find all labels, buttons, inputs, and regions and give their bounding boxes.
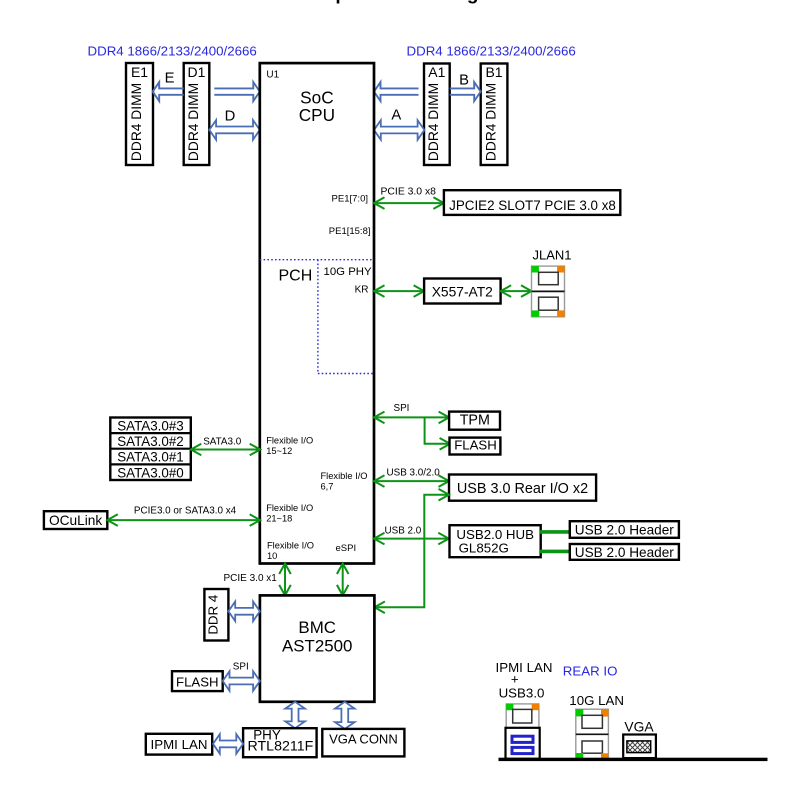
- svg-text:USB 3.0/2.0: USB 3.0/2.0: [387, 468, 441, 479]
- svg-text:GL852G: GL852G: [459, 540, 509, 555]
- memory channel E arrow (D1 to E1): [153, 82, 184, 101]
- svg-text:USB 2.0 Header: USB 2.0 Header: [575, 545, 674, 560]
- SATA3.0 bus arrow: [191, 444, 260, 456]
- SPI bus arrow CPU to TPM: [374, 412, 449, 424]
- PCH dotted region boundary: [260, 260, 374, 374]
- OCuLink bus arrow: [107, 514, 260, 526]
- BMC AST2500: [260, 595, 375, 701]
- svg-text:U1: U1: [266, 70, 279, 81]
- svg-text:USB 2.0 Header: USB 2.0 Header: [575, 522, 674, 537]
- JPCIE2 slot box: [444, 190, 620, 215]
- PHY RTL8211F box: [243, 728, 317, 757]
- hollow arrow BMC to PHY: [285, 702, 305, 728]
- svg-text:BMC: BMC: [298, 618, 336, 637]
- USB 3.0/2.0 bus arrow: [374, 475, 449, 487]
- svg-text:15~12: 15~12: [266, 446, 292, 456]
- DDR 4 box (BMC memory): [204, 589, 228, 641]
- FLASH box (BIOS): [450, 438, 501, 455]
- svg-text:AST2500: AST2500: [282, 637, 352, 656]
- svg-text:JLAN1: JLAN1: [532, 248, 571, 263]
- DIMM slot A1: [424, 64, 450, 166]
- svg-text:PCIE 3.0 x1: PCIE 3.0 x1: [224, 573, 278, 584]
- SoC CPU U1: [260, 63, 374, 563]
- svg-text:PE1[7:0]: PE1[7:0]: [332, 194, 368, 205]
- svg-text:10G LAN: 10G LAN: [569, 693, 624, 708]
- OCuLink box: [44, 511, 107, 529]
- svg-text:SATA3.0#0: SATA3.0#0: [117, 465, 184, 480]
- wire HUB to USB header 1: [540, 530, 570, 534]
- svg-text:21~18: 21~18: [266, 514, 292, 524]
- USB 2.0 Header box 1: [570, 521, 679, 538]
- svg-text:Flexible I/O: Flexible I/O: [266, 436, 313, 446]
- svg-text:6,7: 6,7: [321, 482, 334, 492]
- svg-text:PE1[15:8]: PE1[15:8]: [329, 226, 371, 237]
- svg-text:SPI: SPI: [394, 403, 410, 414]
- svg-text:X557-AT2: X557-AT2: [432, 284, 493, 299]
- PCIe 3.0 x1 arrow CPU to BMC: [279, 564, 291, 596]
- svg-text:10G PHY: 10G PHY: [324, 266, 373, 278]
- svg-text:DDR4 1866/2133/2400/2666: DDR4 1866/2133/2400/2666: [88, 44, 257, 59]
- USB 2.0 bus arrow: [374, 533, 449, 545]
- svg-text:PCIE 3.0 x8: PCIE 3.0 x8: [381, 186, 437, 197]
- svg-text:JPCIE2 SLOT7 PCIE 3.0 x8: JPCIE2 SLOT7 PCIE 3.0 x8: [449, 198, 616, 213]
- TPM box: [449, 412, 500, 430]
- memory bus arrow A1 to CPU: [374, 82, 419, 101]
- memory bus arrow D1 to CPU: [214, 82, 259, 101]
- VGA CONN box: [322, 729, 404, 757]
- hollow arrow BMC to VGA CONN: [335, 702, 355, 729]
- svg-text:PCIE3.0 or SATA3.0 x4: PCIE3.0 or SATA3.0 x4: [134, 505, 237, 516]
- wire HUB to USB header 2: [540, 550, 570, 554]
- connector 10G LAN (dual RJ45): [576, 709, 609, 759]
- svg-text:PCH: PCH: [279, 268, 313, 285]
- PCIe 3.0 x8 bus arrow: [374, 197, 444, 209]
- USB 3.0 Rear I/O x2 box: [449, 475, 596, 501]
- svg-text:B1: B1: [485, 64, 502, 80]
- svg-text:KR: KR: [355, 284, 369, 295]
- connector IPMI LAN RJ45 + USB3.0 stack: [506, 704, 540, 759]
- svg-text:A: A: [391, 108, 401, 124]
- svg-text:SATA3.0#1: SATA3.0#1: [117, 450, 184, 465]
- svg-text:A1: A1: [428, 64, 445, 80]
- svg-text:SATA3.0#2: SATA3.0#2: [117, 434, 184, 449]
- DIMM slot B1: [481, 64, 508, 166]
- svg-text:Flexible I/O: Flexible I/O: [266, 503, 313, 513]
- USB 2.0 Header box 2: [570, 544, 679, 560]
- svg-text:FLASH: FLASH: [454, 437, 497, 452]
- svg-text:USB 2.0: USB 2.0: [385, 525, 422, 536]
- svg-text:TPM: TPM: [460, 413, 490, 429]
- svg-text:B: B: [459, 72, 469, 88]
- svg-text:eSPI: eSPI: [336, 543, 357, 554]
- svg-text:+: +: [511, 672, 519, 687]
- hollow arrow DDR4 to BMC: [228, 602, 260, 622]
- SATA ports stack: [110, 418, 191, 481]
- memory channel D arrow (CPU/D1): [209, 120, 259, 140]
- svg-text:IPMI LAN: IPMI LAN: [496, 660, 553, 675]
- svg-text:DDR 4: DDR 4: [206, 595, 221, 635]
- eSPI arrow CPU to BMC: [337, 564, 349, 596]
- memory channel A arrow (CPU/A1): [374, 120, 424, 140]
- KR bus arrow CPU to X557: [374, 285, 424, 297]
- IPMI LAN box: [146, 734, 212, 755]
- rear IO baseline: [499, 758, 768, 761]
- SATA stack dividers: [110, 433, 191, 464]
- svg-text:SPI: SPI: [233, 662, 249, 673]
- svg-text:E1: E1: [131, 64, 148, 80]
- svg-text:DDR4 1866/2133/2400/2666: DDR4 1866/2133/2400/2666: [407, 44, 576, 59]
- arrow X557 to JLAN1: [501, 285, 532, 297]
- svg-text:VGA: VGA: [624, 719, 654, 734]
- USB2.0 HUB GL852G box: [450, 525, 541, 557]
- svg-text:USB3.0: USB3.0: [499, 686, 545, 701]
- svg-text:Flexible I/O: Flexible I/O: [267, 541, 314, 551]
- svg-text:D1: D1: [188, 64, 206, 80]
- hollow arrow FLASH to BMC: [223, 671, 260, 691]
- X557-AT2 box: [424, 279, 501, 304]
- SPI branch wire to FLASH: [425, 417, 451, 449]
- svg-text:IPMI LAN: IPMI LAN: [151, 737, 208, 752]
- svg-text:CPU: CPU: [299, 105, 335, 125]
- svg-text:DDR4 DIMM: DDR4 DIMM: [186, 83, 201, 161]
- svg-text:RTL8211F: RTL8211F: [248, 738, 314, 754]
- svg-text:VGA CONN: VGA CONN: [329, 731, 398, 746]
- svg-text:REAR IO: REAR IO: [563, 663, 618, 678]
- svg-text:D: D: [225, 109, 236, 125]
- svg-text:10: 10: [267, 551, 277, 561]
- svg-text:Chipset Block Diagram: Chipset Block Diagram: [305, 0, 514, 5]
- svg-text:SATA3.0: SATA3.0: [203, 436, 242, 447]
- svg-text:DDR4 DIMM: DDR4 DIMM: [426, 83, 441, 161]
- svg-text:E: E: [165, 70, 175, 86]
- svg-text:SATA3.0#3: SATA3.0#3: [117, 419, 184, 434]
- memory channel B arrow (A1 to B1): [450, 82, 481, 101]
- svg-text:DDR4 DIMM: DDR4 DIMM: [483, 83, 498, 161]
- FLASH box (BMC): [172, 671, 223, 691]
- svg-text:OCuLink: OCuLink: [49, 513, 102, 528]
- DIMM slot E1: [126, 63, 153, 165]
- DIMM slot D1: [184, 63, 210, 165]
- connector JLAN1 (dual RJ45): [532, 266, 565, 317]
- wire BMC to USB 3.0 Rear I/O: [374, 489, 449, 613]
- hollow arrow IPMI LAN to PHY: [213, 734, 243, 754]
- svg-text:Flexible I/O: Flexible I/O: [321, 471, 368, 481]
- svg-text:DDR4 DIMM: DDR4 DIMM: [129, 83, 144, 161]
- svg-text:FLASH: FLASH: [176, 674, 219, 689]
- svg-text:USB 3.0 Rear I/O x2: USB 3.0 Rear I/O x2: [457, 481, 588, 497]
